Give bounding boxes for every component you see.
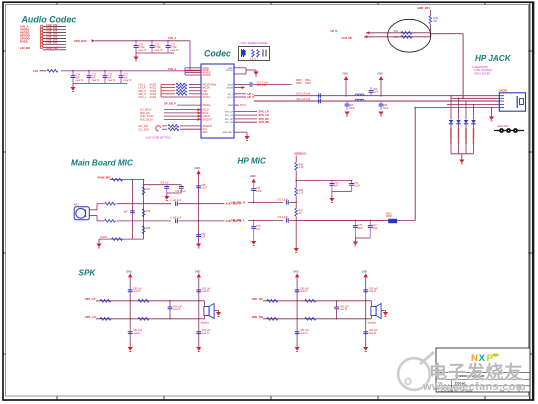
ground G14 xyxy=(166,193,168,196)
svg-text:HP MIC: HP MIC xyxy=(238,157,267,166)
wire spk row2 SPK_RN xyxy=(263,318,372,320)
svg-text:MICBIAS: MICBIAS xyxy=(295,152,307,156)
wire mic out P xyxy=(89,209,97,211)
wire HDR to ellipse xyxy=(429,24,431,37)
resistor spk r2a xyxy=(267,317,278,320)
wire HP mic row1 xyxy=(248,201,283,203)
resistor spk r2b xyxy=(305,317,316,320)
svg-text:near IC: near IC xyxy=(171,49,179,52)
svg-text:HIGH: SLEEP: HIGH: SLEEP xyxy=(474,71,491,75)
svg-text:near IC: near IC xyxy=(155,49,163,52)
svg-text:MICB2: MICB2 xyxy=(227,88,234,90)
wire mic vertical A xyxy=(132,180,134,240)
net label HP_L xyxy=(234,93,246,95)
svg-text:GND: GND xyxy=(343,73,349,76)
resistor R36 xyxy=(112,238,123,241)
svg-text:1uF: 1uF xyxy=(256,229,261,231)
inductor FB on HP_R xyxy=(355,99,364,101)
svg-text:HP_L: HP_L xyxy=(228,94,234,96)
wire mic bias row xyxy=(110,179,144,181)
svg-text:AUX_L: AUX_L xyxy=(139,96,148,99)
ground G15 xyxy=(196,244,201,248)
ESD diode array wires xyxy=(450,96,452,120)
wire micbias v2 xyxy=(295,171,297,189)
wire spk vertical B xyxy=(365,277,367,347)
diode group xyxy=(449,120,453,124)
wire cap join hp2 xyxy=(355,237,370,239)
svg-text:R33: R33 xyxy=(146,189,151,191)
wire ellipse to jack xyxy=(430,33,463,35)
svg-text:C46: C46 xyxy=(201,234,206,236)
svg-text:1V8_d: 1V8_d xyxy=(168,67,176,71)
svg-text:C81 1uF: C81 1uF xyxy=(300,330,309,332)
svg-text:AUD_MIC_P: AUD_MIC_P xyxy=(226,202,242,206)
svg-text:GND: GND xyxy=(362,270,368,273)
svg-text:电子发烧友: 电子发烧友 xyxy=(429,362,523,383)
svg-text:MIC1P/SPKa: MIC1P/SPKa xyxy=(203,85,217,87)
capacitor group on 1V8_d xyxy=(72,71,74,76)
svg-text:2.2uF: 2.2uF xyxy=(201,188,208,190)
svg-text:10uF 16V: 10uF 16V xyxy=(46,41,58,45)
svg-text:JACK1: JACK1 xyxy=(499,89,508,93)
svg-text:near IC: near IC xyxy=(340,308,348,311)
wire jack pin4 xyxy=(447,104,499,106)
svg-text:GND PAD: GND PAD xyxy=(222,131,232,134)
wire ellipse right drop xyxy=(462,34,464,99)
svg-text:wave PAD: wave PAD xyxy=(497,125,509,128)
capacitor spk B top xyxy=(363,290,368,292)
svg-text:C73 0.1uF: C73 0.1uF xyxy=(277,217,288,219)
svg-text:near IC: near IC xyxy=(369,290,377,293)
svg-text:0R: 0R xyxy=(434,20,437,23)
svg-text:HP_R: HP_R xyxy=(227,97,233,99)
wire spk row2 SPK_LN xyxy=(96,318,205,320)
svg-text:near IC: near IC xyxy=(124,79,132,82)
svg-text:33pF: 33pF xyxy=(358,228,364,230)
wire mic out N xyxy=(89,214,97,216)
wire 1V8_A vertical xyxy=(189,41,191,71)
svg-text:GND: GND xyxy=(293,270,299,273)
capacitor C1 group on 1V8_A xyxy=(135,41,137,46)
wire U1 top pins bus xyxy=(185,67,201,69)
svg-text:SPK_RN: SPK_RN xyxy=(259,120,270,124)
svg-text:near IC: near IC xyxy=(173,308,181,311)
svg-text:R46: R46 xyxy=(299,190,304,192)
svg-text:C65: C65 xyxy=(383,105,388,107)
svg-text:FB12: FB12 xyxy=(386,214,392,216)
svg-text:MK1: MK1 xyxy=(74,204,80,207)
svg-text:SDA: SDA xyxy=(203,131,208,134)
svg-text:SPK_RP: SPK_RP xyxy=(225,119,234,121)
svg-text:near IC: near IC xyxy=(300,290,308,293)
wire filter join xyxy=(167,192,182,194)
svg-text:near IC: near IC xyxy=(133,332,141,335)
connector JACK1 headphone jack xyxy=(499,93,525,111)
wire micbias vertical xyxy=(295,155,297,162)
capacitor C64 above xyxy=(369,91,374,93)
capacitor C63 xyxy=(346,101,348,104)
svg-text:SCLK1: SCLK1 xyxy=(203,97,211,99)
svg-text:C60 1uF 16V: C60 1uF 16V xyxy=(296,93,311,96)
wire HP_L main xyxy=(254,95,499,97)
svg-text:GND: GND xyxy=(195,167,201,170)
resistor R31 xyxy=(105,202,116,205)
svg-text:DACDAT: DACDAT xyxy=(203,118,213,121)
wire VREF stub xyxy=(234,104,239,106)
microphone MK1 xyxy=(74,207,89,220)
capacitor spk B top xyxy=(196,290,201,292)
svg-text:C76: C76 xyxy=(358,225,363,227)
svg-text:SP_SELP: SP_SELP xyxy=(164,101,176,105)
wire spk row1 SPK_LP xyxy=(96,300,205,302)
connector J1 bottom wire xyxy=(43,49,66,51)
wire HDR stub xyxy=(429,10,431,16)
svg-text:HP JACK: HP JACK xyxy=(475,54,512,63)
svg-text:SPVDD: SPVDD xyxy=(203,75,211,77)
svg-text:SPK_LP: SPK_LP xyxy=(85,297,96,301)
wire cap group join 2 xyxy=(73,83,127,85)
I2C pull resistors xyxy=(156,126,161,131)
capacitor series on HP_L xyxy=(319,94,321,98)
svg-text:C61 1uF 16V: C61 1uF 16V xyxy=(296,98,311,101)
wire U1 top right loop xyxy=(234,67,246,69)
svg-text:C75: C75 xyxy=(256,226,261,228)
wire cap join hp xyxy=(332,191,352,193)
capacitor spk A top xyxy=(295,290,300,292)
wire ellipse top xyxy=(366,31,369,34)
resistor spk r2b xyxy=(138,317,149,320)
watermark text xyxy=(422,362,526,394)
svg-text:AUD_BCLK: AUD_BCLK xyxy=(140,118,154,121)
capacitor spk A bottom xyxy=(128,332,133,334)
svg-text:near IC: near IC xyxy=(202,332,210,335)
capacitor C73 series xyxy=(286,218,288,222)
svg-text:22pF: 22pF xyxy=(383,108,389,110)
op-amp U1 codec IC body xyxy=(201,64,234,138)
capacitor C43 xyxy=(166,185,168,187)
wire MICBIAS2 stub xyxy=(234,87,242,89)
resistor R45 xyxy=(295,163,298,171)
wire mic row2 out xyxy=(199,220,225,222)
capacitor C74 xyxy=(253,183,255,189)
svg-text:SPK_LP: SPK_LP xyxy=(259,109,269,113)
wire jack mic pin xyxy=(415,107,499,109)
wire to row2 xyxy=(295,217,297,221)
watermark elecfans logo xyxy=(396,352,434,392)
wire HP mic vertical xyxy=(414,108,416,221)
ground G3 xyxy=(255,70,257,72)
svg-text:near IC: near IC xyxy=(108,79,116,82)
ellipse annotation xyxy=(388,19,431,52)
svg-text:ESD9X5VU-2: ESD9X5VU-2 xyxy=(457,129,460,145)
svg-text:Speaker: Speaker xyxy=(368,322,377,325)
svg-text:HDR_BT1: HDR_BT1 xyxy=(418,6,431,10)
ground G2 xyxy=(72,84,74,88)
wire MICBIAS out xyxy=(234,84,249,86)
ground spk C xyxy=(214,310,218,312)
resistor R35 xyxy=(142,226,145,234)
svg-text:R42: R42 xyxy=(394,37,399,39)
capacitor spk A top xyxy=(128,290,133,292)
speaker SPK_LP xyxy=(204,301,206,307)
jumper box JP1 xyxy=(239,47,270,61)
wire spk vertical A xyxy=(129,277,131,347)
svg-text:R45: R45 xyxy=(299,165,304,167)
svg-text:MCLK: MCLK xyxy=(203,110,210,112)
svg-text:AUD_MIC_N: AUD_MIC_N xyxy=(226,219,242,223)
wire micbias branch xyxy=(296,180,351,182)
ground G8 xyxy=(461,154,463,160)
ground spk C xyxy=(381,310,385,312)
wire mic vertical B xyxy=(143,180,145,240)
wire HP mic row2 xyxy=(248,219,283,221)
svg-text:1uF: 1uF xyxy=(201,237,206,239)
svg-text:LIN1: LIN1 xyxy=(203,91,209,93)
svg-text:Main Board MIC: Main Board MIC xyxy=(71,159,134,168)
svg-text:RIN1: RIN1 xyxy=(203,94,209,96)
wire mic row2 xyxy=(117,220,172,222)
svg-text:GND: GND xyxy=(378,73,384,76)
svg-text:www.elecfans.com: www.elecfans.com xyxy=(422,381,526,393)
svg-text:C84 1uF: C84 1uF xyxy=(340,306,349,308)
wire cap group join xyxy=(136,52,174,54)
svg-text:MIC1N: MIC1N xyxy=(203,88,211,90)
svg-text:near IC: near IC xyxy=(76,79,84,82)
svg-text:HP_R: HP_R xyxy=(248,95,255,99)
capacitor spk mid xyxy=(336,301,338,307)
svg-text:R34: R34 xyxy=(146,211,151,213)
ground G6 xyxy=(378,112,383,116)
speaker SPK_RP xyxy=(371,301,373,307)
ground spk A xyxy=(128,347,133,351)
wire ellipse bottom xyxy=(364,35,367,38)
wire spk row1 SPK_RP xyxy=(263,300,372,302)
svg-text:ADCDAT: ADCDAT xyxy=(203,125,213,128)
ground G1 xyxy=(135,53,137,57)
resistor spk r1b xyxy=(305,299,316,302)
svg-text:near IC: near IC xyxy=(92,79,100,82)
svg-text:ESD9X5VU-2: ESD9X5VU-2 xyxy=(472,129,475,145)
svg-text:SPKVD: SPKVD xyxy=(226,70,234,72)
svg-text:MICDet: MICDet xyxy=(203,104,211,107)
svg-text:2.2K: 2.2K xyxy=(299,167,304,169)
svg-text:ESD9X5VU-2: ESD9X5VU-2 xyxy=(449,129,452,145)
svg-text:16V X5R: 16V X5R xyxy=(257,84,267,87)
svg-text:C74: C74 xyxy=(256,188,261,190)
svg-text:C70: C70 xyxy=(334,183,339,185)
wire mic bottom row xyxy=(99,238,144,240)
resistor spk r2a xyxy=(100,317,111,320)
capacitor spk B bottom xyxy=(363,332,368,334)
wire diode join xyxy=(451,153,474,155)
capacitor C72 series xyxy=(286,200,288,204)
svg-text:C72 0.1uF: C72 0.1uF xyxy=(277,199,288,201)
ground G7 jack xyxy=(491,108,493,117)
capacitor series on HP_R xyxy=(319,99,321,103)
connector J1 pins xyxy=(40,25,43,28)
wire HP_R main xyxy=(254,100,499,102)
ground G13 xyxy=(98,239,100,243)
ground G5 xyxy=(344,112,349,116)
svg-text:22pF: 22pF xyxy=(373,92,379,94)
svg-text:TP12: TP12 xyxy=(240,104,247,107)
svg-text:near IC: near IC xyxy=(133,290,141,293)
ground G10 xyxy=(294,248,299,252)
svg-text:GND: GND xyxy=(126,270,132,273)
svg-text:C63: C63 xyxy=(349,105,354,107)
jack pad footprint xyxy=(494,130,524,132)
resistor R47 xyxy=(295,209,298,217)
svg-text:SPK_LN: SPK_LN xyxy=(85,315,96,319)
svg-text:SPK: SPK xyxy=(79,269,97,278)
svg-text:600R: 600R xyxy=(305,82,311,85)
svg-text:C77: C77 xyxy=(372,225,377,227)
svg-text:1 2 3: 1 2 3 xyxy=(250,58,256,61)
capacitor C42 xyxy=(130,211,135,213)
svg-text:C45: C45 xyxy=(201,185,206,187)
resistor spk r1a xyxy=(267,299,278,302)
ground G11 xyxy=(251,241,256,245)
ground G9 xyxy=(331,192,333,199)
svg-text:MAIN_MIC: MAIN_MIC xyxy=(98,176,111,180)
svg-text:C43 1uF: C43 1uF xyxy=(160,182,169,184)
svg-text:SCL: SCL xyxy=(203,129,208,131)
ground spk A xyxy=(295,347,300,351)
svg-text:ESD9X5VU-2: ESD9X5VU-2 xyxy=(464,129,467,145)
svg-text:AUD_HP: AUD_HP xyxy=(342,36,353,40)
svg-text:C83 1uF: C83 1uF xyxy=(369,330,378,332)
resistor R46 xyxy=(295,188,298,196)
svg-text:GND: GND xyxy=(195,270,201,273)
svg-text:OFF, SLEEP MODE: OFF, SLEEP MODE xyxy=(241,41,269,45)
wire HP mic horizontal xyxy=(296,219,388,221)
svg-text:SPK_LP: SPK_LP xyxy=(225,111,233,113)
capacitor C45 xyxy=(196,186,201,188)
resistor R32 xyxy=(105,220,116,223)
wire mic right vertical xyxy=(198,174,200,243)
svg-text:SPK_RN: SPK_RN xyxy=(252,315,263,319)
wire 1V8_d continues xyxy=(61,70,201,72)
svg-text:BCLK: BCLK xyxy=(203,113,210,115)
title block frame xyxy=(436,348,530,392)
wire SP_SELP xyxy=(177,104,201,106)
svg-text:R35: R35 xyxy=(146,228,151,230)
svg-text:AUD CODE SETTING: AUD CODE SETTING xyxy=(145,136,171,139)
micbias filter bracket xyxy=(144,184,182,186)
svg-text:SPK_RN: SPK_RN xyxy=(225,122,234,124)
ferrite bead FB12 xyxy=(397,219,415,221)
capacitor C70 xyxy=(331,181,333,184)
svg-text:600R: 600R xyxy=(296,82,302,85)
capacitor spk mid xyxy=(169,301,171,307)
svg-text:600R: 600R xyxy=(386,216,392,218)
svg-text:C84 1uF: C84 1uF xyxy=(173,306,182,308)
svg-text:HP_R: HP_R xyxy=(331,29,338,33)
ground G12 xyxy=(354,238,356,242)
ground spk B xyxy=(196,347,201,351)
net label HP_R xyxy=(234,96,246,98)
svg-text:C80 1uF: C80 1uF xyxy=(133,288,142,290)
svg-text:near IC: near IC xyxy=(300,332,308,335)
svg-text:SPK_LN: SPK_LN xyxy=(259,113,269,117)
svg-text:near IC: near IC xyxy=(202,290,210,293)
svg-text:1V8: 1V8 xyxy=(33,69,38,73)
svg-text:near IC: near IC xyxy=(369,332,377,335)
capacitor C65 xyxy=(380,101,382,104)
resistor R30 xyxy=(112,178,123,181)
wire mic row1 out xyxy=(199,203,225,205)
svg-text:LIN_BK: LIN_BK xyxy=(20,46,30,50)
svg-text:2.2uF: 2.2uF xyxy=(256,191,263,193)
svg-text:AUD4: AUD4 xyxy=(150,96,157,99)
capacitor C71 xyxy=(351,181,353,184)
svg-text:1V8_A: 1V8_A xyxy=(168,36,176,40)
ground G4 under U1 xyxy=(234,131,247,133)
svg-text:near IC: near IC xyxy=(139,49,147,52)
svg-text:1K: 1K xyxy=(299,213,302,215)
capacitor C77 xyxy=(369,220,371,225)
svg-text:0.1uF: 0.1uF xyxy=(354,186,361,188)
resistor rows into U1 xyxy=(161,84,175,86)
svg-text:AGND: AGND xyxy=(100,236,107,239)
resistor R34 xyxy=(142,209,145,217)
svg-text:SPK_LN: SPK_LN xyxy=(225,115,233,117)
wire SPK_L pair xyxy=(234,110,257,112)
inductor FB on HP_L xyxy=(355,94,364,96)
resistor R40 xyxy=(429,16,432,24)
wire spk vertical B xyxy=(198,277,200,347)
svg-text:AUD_1V8: AUD_1V8 xyxy=(46,46,58,50)
ground spk B xyxy=(363,347,368,351)
capacitor spk B bottom xyxy=(196,332,201,334)
resistor spk r1b xyxy=(138,299,149,302)
svg-text:Speaker: Speaker xyxy=(201,322,210,325)
svg-text:Codec: Codec xyxy=(204,49,231,59)
capacitor C75 xyxy=(253,220,255,226)
wire SPK_R pair xyxy=(234,118,257,120)
svg-text:R41: R41 xyxy=(394,31,399,33)
svg-text:SPK_RP: SPK_RP xyxy=(252,297,263,301)
resistor R33 xyxy=(142,187,145,195)
svg-text:2.2K: 2.2K xyxy=(299,193,304,195)
svg-text:1uF: 1uF xyxy=(124,212,129,214)
wire HPR_BUF xyxy=(92,39,95,42)
svg-text:C81 1uF: C81 1uF xyxy=(133,330,142,332)
svg-text:DVDD: DVDD xyxy=(20,39,28,43)
svg-text:C71: C71 xyxy=(354,183,359,185)
wire 1V8_d xyxy=(40,70,46,72)
svg-text:VREF: VREF xyxy=(227,105,233,107)
svg-text:C64: C64 xyxy=(373,89,378,91)
wire mic row1 xyxy=(117,203,172,205)
svg-text:R47: R47 xyxy=(299,211,304,213)
svg-text:33pF: 33pF xyxy=(372,228,378,230)
capacitor C76 xyxy=(354,220,356,225)
svg-text:GND: GND xyxy=(250,175,256,178)
wire jack pin3 xyxy=(451,97,499,99)
svg-text:MICB: MICB xyxy=(228,85,234,87)
svg-text:C83 1uF: C83 1uF xyxy=(202,330,211,332)
svg-text:I2C_SDA: I2C_SDA xyxy=(139,128,150,131)
inductor L1 xyxy=(47,69,58,72)
svg-text:C82 1uF: C82 1uF xyxy=(202,288,211,290)
svg-text:HPR_BUF: HPR_BUF xyxy=(74,39,87,43)
wire to row1 xyxy=(295,196,297,209)
svg-text:22pF: 22pF xyxy=(349,108,355,110)
svg-text:LRCLK: LRCLK xyxy=(203,116,211,118)
resistor spk r1a xyxy=(100,299,111,302)
svg-text:C80 1uF: C80 1uF xyxy=(300,288,309,290)
